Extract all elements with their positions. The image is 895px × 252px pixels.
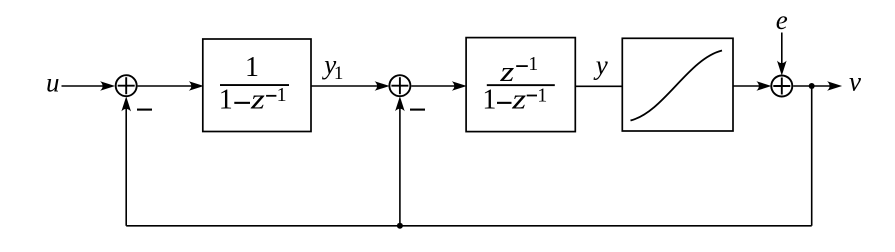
svg-text:z: z xyxy=(511,83,527,114)
wire S1 to block G1 xyxy=(138,85,197,87)
svg-text:1: 1 xyxy=(537,84,547,106)
wire G2 to block N1 xyxy=(575,85,622,87)
svg-text:u: u xyxy=(46,68,60,98)
block G1: 1/(1-z^-1) xyxy=(203,39,311,132)
svg-text:1: 1 xyxy=(277,84,287,106)
wire G1 to summing junction S2 xyxy=(311,85,382,87)
block N1: saturation nonlinearity xyxy=(622,38,733,131)
feedback wire: up into S2 xyxy=(399,103,401,226)
svg-text:1: 1 xyxy=(482,85,496,116)
junction dot on bottom wire xyxy=(397,223,403,229)
feedback wire: up into S1 xyxy=(125,103,127,226)
svg-text:1: 1 xyxy=(334,63,344,84)
minus sign at S2 xyxy=(410,109,425,111)
summing junction S3 xyxy=(771,76,792,97)
svg-text:1: 1 xyxy=(219,85,233,116)
svg-text:1: 1 xyxy=(528,53,538,75)
wire S3 to v xyxy=(793,85,835,87)
svg-text:y: y xyxy=(593,50,608,80)
wire N1 to summing junction S3 xyxy=(733,85,764,87)
junction dot after S3 xyxy=(809,83,815,89)
minus sign at S1 xyxy=(137,109,152,111)
wire u to summing junction S1 xyxy=(62,85,108,87)
feedback wire: bottom horizontal xyxy=(126,225,812,227)
summing junction S1 xyxy=(116,75,137,96)
svg-text:1: 1 xyxy=(245,52,259,83)
wire e down to S3 xyxy=(781,33,783,69)
summing junction S2 xyxy=(389,75,410,96)
svg-text:e: e xyxy=(776,5,788,35)
feedback wire: down from output dot xyxy=(811,86,813,226)
wire S2 to block G2 xyxy=(411,85,459,87)
block G2: z^-1/(1-z^-1) xyxy=(466,38,575,132)
svg-text:z: z xyxy=(250,83,266,114)
svg-text:v: v xyxy=(849,67,861,97)
